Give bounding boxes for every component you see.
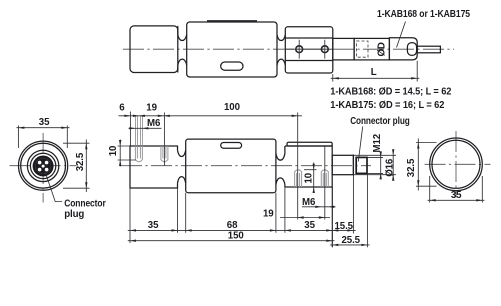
cable gland body [354,38,389,60]
arrows 35 left [130,229,178,231]
svg-text:35: 35 [304,220,315,231]
hole 2 in right block [321,46,328,53]
ext M12 end [366,173,368,247]
M12 ext lines [368,157,384,173]
svg-text:19: 19 [146,103,157,114]
node centerlines hole1 [285,40,333,59]
dim 10 right ext [304,169,317,171]
arrows 68 [186,229,276,231]
arrows 19 right [298,216,325,218]
ext right body left [284,187,286,233]
M6 arrows left [129,127,148,129]
dim row 35 68 35 15.5 line [128,229,356,231]
dim 19 right line [280,217,330,219]
slot front view [221,143,242,149]
M6 dim line left [129,127,162,129]
wire neck left front [178,150,186,183]
svg-text:100: 100 [224,102,240,113]
svg-text:15.5: 15.5 [335,221,354,232]
centerline vertical right view [455,131,457,198]
arrows 35 right [285,229,332,231]
M12 dim line [380,152,382,179]
wire flat edges on right block [285,38,333,61]
outer circle D35 [18,141,67,190]
dim 32.5 extension lines [63,143,90,188]
label plate edge on top of block [207,20,257,22]
ext main block left [185,193,187,233]
M12 thread section [356,157,367,173]
connector stub front (O16) [332,155,353,174]
svg-text:10: 10 [108,146,119,157]
arrows 10 right [313,164,315,193]
svg-text:Connector plug: Connector plug [350,116,410,127]
M6 right arrows [315,206,334,208]
arrows 15.5 [332,229,353,231]
dim 10 left line [119,140,121,167]
svg-text:M6: M6 [147,118,161,129]
connector ring circle [30,153,55,178]
hole 1 in right block [296,46,303,53]
ext left body left [129,188,131,243]
O16 ext lines [354,155,396,174]
svg-text:19: 19 [263,208,274,219]
centerline horizontal left view [10,165,77,167]
svg-text:10: 10 [304,173,315,184]
arrows 150 [130,240,332,242]
M6 right dim line [302,206,336,208]
inner circle right view [432,140,480,188]
left cylinder (side view) [130,26,178,73]
slot in main block (side view) [221,62,243,70]
arrow 32.5 top [85,143,87,149]
wire neck right (top view) [277,35,285,65]
dim 10 left ext lines [118,146,137,160]
hole1 projection lines [135,116,142,146]
arrows 32.5 right [417,143,419,187]
centerline front view [121,165,371,167]
centerline top view [123,48,454,50]
dim 35 right line [428,199,485,201]
cable exit oval in boot [407,43,416,56]
svg-text:M6: M6 [302,197,316,208]
connector bezel circle [27,150,58,181]
right mounting block (side view) [285,27,333,73]
svg-text:L: L [371,67,377,78]
ext stub end [352,176,354,234]
dimension L extension lines [333,61,417,82]
M6 hole 2 left body [161,146,168,162]
dim 35 line [17,127,70,129]
arrows at hole1 center [133,115,145,117]
dim 35 right ext lines [430,176,483,203]
svg-text:ØD: ØD [376,42,387,56]
svg-text:35: 35 [148,220,159,231]
ext left face up [129,112,131,147]
M6 hole 1 right body [295,170,302,187]
ext right body right [331,187,333,247]
node centerlines hole2 [324,40,326,59]
dim 10 right line [313,163,315,191]
svg-text:Ø16: Ø16 [385,158,396,177]
svg-text:150: 150 [228,231,244,242]
svg-text:68: 68 [227,220,238,231]
arrow L left [333,77,339,79]
svg-text:32.5: 32.5 [406,158,417,177]
cable boot [389,38,417,60]
svg-text:6: 6 [119,103,125,114]
leader to cable label [397,22,406,48]
cable [417,46,440,53]
connector shell thick ring [34,157,52,175]
arrow 100 right [292,115,298,117]
arrows 10 left [119,140,121,166]
svg-text:Connector: Connector [64,199,106,210]
left body front [130,146,178,188]
hole2 right center line [324,147,326,220]
connector stub (side view) [333,38,354,60]
arrows at hole2 center [158,115,170,117]
hole2 center projection line [163,113,165,167]
svg-text:32.5: 32.5 [75,152,86,171]
boundary line stub [352,155,354,176]
svg-text:1-KAB175: ØD = 16; L = 62: 1-KAB175: ØD = 16; L = 62 [330,100,444,111]
svg-text:plug: plug [64,209,84,220]
leader connector plug left [45,170,63,202]
M6 hole 1 left body [135,146,142,162]
top strip on right body [287,142,332,146]
dim 32.5 right line [417,139,419,191]
O16 dim line [392,151,394,181]
pin circles [38,161,49,172]
ext left body right [177,188,179,233]
arrow 6 left [124,115,130,117]
ext main block right [275,193,277,233]
svg-text:35: 35 [39,117,50,128]
right body front [285,146,332,187]
arrows M12 [380,151,382,179]
centerline vertical left view [42,133,44,203]
wire neck left (top view) [178,26,187,73]
svg-text:35: 35 [451,190,462,201]
arrow 35 left [18,127,24,129]
wire neck right front [276,154,285,185]
dimension L line [331,77,420,79]
svg-text:25.5: 25.5 [342,235,361,246]
main block front [186,139,276,193]
dim 150 line [128,240,335,242]
M6 hole 2 right body [321,170,328,187]
dim 35 extension lines [18,126,67,149]
svg-text:1-KAB168 or 1-KAB175: 1-KAB168 or 1-KAB175 [377,9,470,20]
arrows O16 [392,149,394,180]
dim 32.5 right ext lines [416,143,437,187]
dim 32.5 line [85,140,87,193]
outer circle right view [430,138,483,191]
arrow 32.5 bottom [85,182,87,188]
hole1 right center line [297,113,299,220]
svg-text:1-KAB168: ØD = 14.5; L = 62: 1-KAB168: ØD = 14.5; L = 62 [330,86,451,97]
arrow 35 right [61,127,67,129]
dim 25.5 line [330,244,369,246]
main body block (side view) [187,22,277,77]
leader connector plug right [358,127,362,162]
arrows 35 right view [430,199,483,201]
top dim chain line [119,115,303,117]
arrows 25.5 [332,244,367,246]
svg-text:M12: M12 [372,134,383,153]
arrow L right [411,77,417,79]
centerline horizontal right view [425,163,491,165]
hidden hex inside gland [357,41,369,57]
connector insert disc [35,158,51,174]
circle 32.5 [21,143,66,188]
